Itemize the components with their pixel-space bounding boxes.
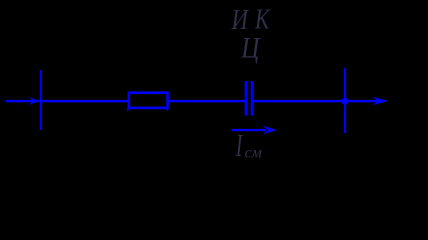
capacitor C: left plate xyxy=(245,81,248,116)
resistor bottom-left corner stub xyxy=(126,109,129,112)
capacitor C: right plate xyxy=(251,81,254,116)
svg-text:I: I xyxy=(235,127,243,163)
svg-text:Ц: Ц xyxy=(240,30,261,64)
left section bar (vertical line crossing wire) xyxy=(40,70,42,130)
arrowhead on left wire (current direction into circuit) xyxy=(29,97,38,105)
svg-text:см: см xyxy=(245,145,262,162)
arrowhead at right wire end (current direction out) xyxy=(373,97,389,106)
wire: left segment from edge to resistor xyxy=(6,100,128,102)
wire: resistor to capacitor xyxy=(168,100,245,102)
resistor bottom-right corner stub xyxy=(166,109,169,112)
junction dot on right bar xyxy=(342,98,349,105)
displacement current arrow under capacitor xyxy=(232,129,266,131)
resistor R (rectangle) xyxy=(129,93,168,108)
right section bar (vertical line crossing wire) xyxy=(344,68,346,133)
wire: capacitor to right end xyxy=(254,100,380,102)
